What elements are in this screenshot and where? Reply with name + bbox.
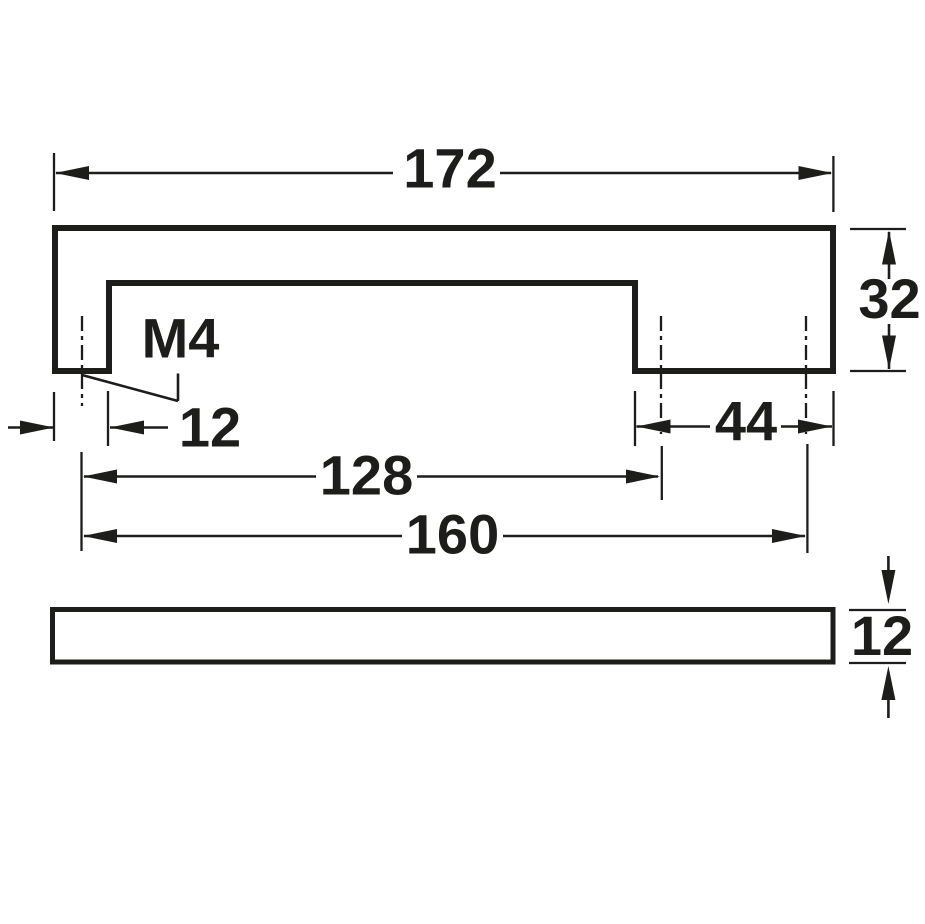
svg-text:160: 160 bbox=[406, 503, 499, 566]
svg-text:172: 172 bbox=[403, 137, 496, 200]
svg-text:12: 12 bbox=[851, 604, 913, 667]
svg-text:32: 32 bbox=[858, 267, 920, 330]
svg-text:128: 128 bbox=[320, 444, 413, 507]
svg-text:12: 12 bbox=[179, 396, 241, 459]
svg-text:44: 44 bbox=[715, 390, 777, 453]
svg-text:M4: M4 bbox=[142, 307, 220, 370]
